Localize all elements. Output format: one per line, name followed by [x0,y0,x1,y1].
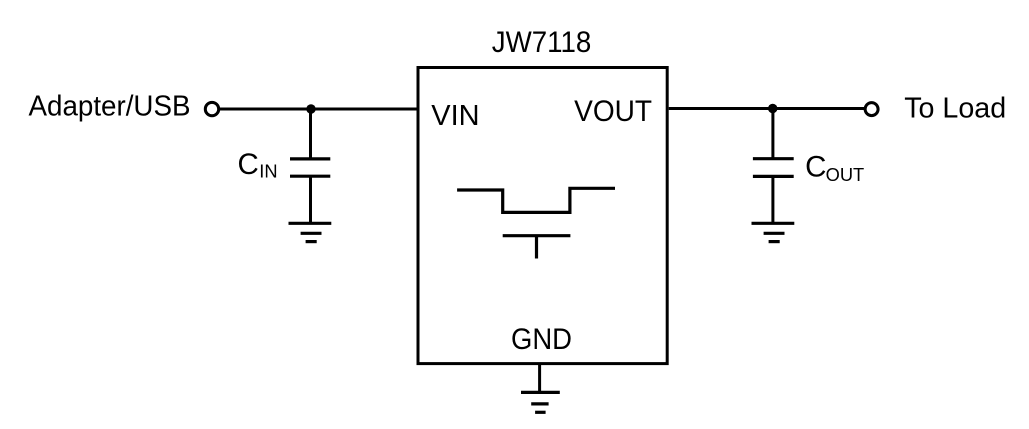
svg-text:VOUT: VOUT [574,95,652,128]
IC U1 JW7118 box [418,68,667,364]
ground (C_OUT) [752,223,795,241]
ground (C_IN) [289,223,332,241]
capacitor C_OUT [753,159,794,177]
node VOUT output terminal (open circle) [865,103,878,116]
wire COUT upper lead [771,109,774,159]
transistor pass MOSFET channel [457,188,615,212]
junction input node [306,104,315,113]
capacitor C_IN [290,159,330,176]
wire GND pin lead [538,365,541,392]
svg-text:JW7118: JW7118 [492,27,592,59]
svg-text:OUT: OUT [826,164,865,185]
wire COUT lower lead [771,176,774,223]
ground (GND pin) [521,392,560,412]
svg-text:GND: GND [511,323,572,356]
transistor gate plate [503,234,571,237]
svg-text:Adapter/USB: Adapter/USB [29,90,191,122]
wire CIN lower lead [309,176,312,223]
wire input: terminal to VIN pin [219,108,417,111]
transistor gate lead [535,236,538,259]
junction output node [768,104,777,113]
node VIN input terminal (open circle) [205,102,218,115]
wire CIN upper lead [309,109,312,159]
svg-text:IN: IN [259,161,277,182]
svg-text:C: C [805,151,826,184]
label C_IN [238,148,278,181]
svg-text:VIN: VIN [431,100,479,132]
svg-text:C: C [238,148,259,181]
label C_OUT [805,151,864,185]
wire output: VOUT pin to terminal [669,107,864,110]
svg-text:To Load: To Load [904,93,1006,125]
